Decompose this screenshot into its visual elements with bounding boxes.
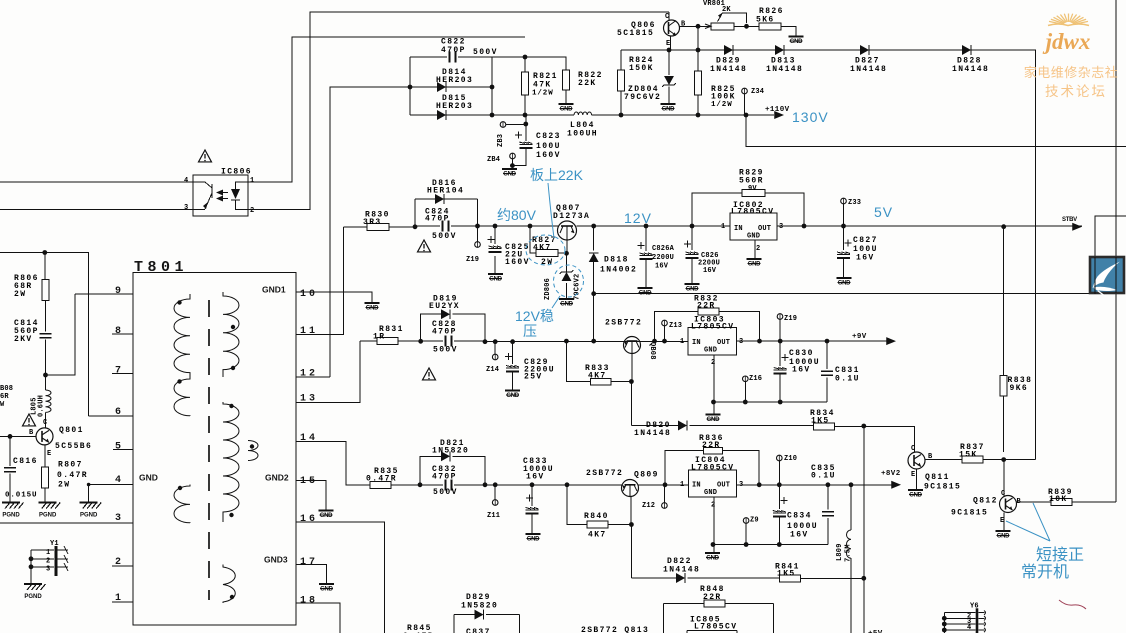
resistor R848 22R bypass	[664, 604, 774, 633]
T801 pin 13	[296, 341, 360, 402]
potentiometer VR801 2K	[705, 13, 747, 30]
terminal Z11	[494, 485, 496, 500]
svg-text:7: 7	[115, 366, 124, 377]
wire snubber top branch	[410, 56, 492, 58]
junction Q808 base node	[629, 379, 634, 384]
svg-text:0.47R: 0.47R	[57, 471, 88, 480]
ground IC803	[705, 415, 720, 424]
diode D827 1N4148	[860, 45, 869, 55]
capacitor C829 2200U 25V	[512, 342, 514, 391]
svg-text:C830: C830	[789, 349, 814, 358]
chassis ground PGND3	[80, 503, 102, 519]
svg-text:HER104: HER104	[427, 187, 464, 196]
wire R826 to ground	[781, 26, 796, 36]
svg-text:L7805CV: L7805CV	[694, 623, 737, 632]
svg-text:1: 1	[46, 549, 50, 557]
svg-text:OUT: OUT	[717, 339, 730, 347]
svg-text:2W: 2W	[58, 481, 70, 490]
T801 pin 11	[296, 227, 344, 335]
svg-text:12V: 12V	[624, 210, 652, 226]
svg-text:L7805CV: L7805CV	[731, 208, 774, 217]
ground below C833	[526, 534, 541, 543]
svg-text:Z9: Z9	[750, 517, 759, 525]
svg-text:Q801: Q801	[59, 426, 84, 435]
inductor L804 100UH	[574, 112, 592, 115]
diode D820 1N4148 line	[631, 425, 813, 427]
svg-text:GND: GND	[489, 277, 502, 283]
connector Y1	[31, 540, 68, 576]
svg-text:500V: 500V	[473, 48, 498, 57]
svg-text:B08: B08	[0, 385, 13, 393]
svg-text:Z16: Z16	[749, 375, 762, 383]
svg-text:15: 15	[300, 476, 318, 487]
terminal Z10	[777, 455, 783, 461]
capacitor C832 470P on rail	[420, 484, 485, 486]
svg-text:5V: 5V	[874, 204, 893, 220]
T801 pin 12	[296, 376, 330, 378]
T801 winding pins 7-6	[174, 374, 190, 416]
svg-text:2: 2	[46, 558, 50, 566]
junction R832 left	[652, 339, 657, 344]
wire Y1 to ground	[30, 550, 32, 584]
wire optocoupler pin 4 input	[0, 181, 193, 183]
junction base-C816	[8, 434, 13, 439]
T801 pin 7	[112, 373, 133, 375]
T801 pin 18	[296, 603, 340, 633]
svg-text:500V: 500V	[433, 346, 458, 355]
T801 pin 5	[113, 449, 133, 451]
svg-text:3: 3	[46, 566, 50, 574]
junction L809 top	[849, 482, 854, 487]
junction C829 top	[510, 339, 515, 344]
svg-text:7.5M: 7.5M	[845, 544, 853, 562]
wire +110V rail	[592, 114, 774, 116]
svg-text:2W: 2W	[541, 258, 553, 267]
svg-text:500V: 500V	[433, 488, 458, 497]
svg-text:160V: 160V	[536, 151, 561, 160]
svg-text:E: E	[47, 450, 51, 458]
svg-text:2W: 2W	[14, 290, 26, 299]
bird icon	[1090, 257, 1124, 297]
svg-text:Z14: Z14	[486, 366, 499, 374]
svg-text:16V: 16V	[526, 473, 545, 482]
svg-text:0.47R: 0.47R	[366, 475, 397, 484]
svg-text:Z33: Z33	[848, 199, 861, 207]
svg-text:GND: GND	[704, 489, 717, 497]
capacitor C833 1000U 16V	[531, 485, 533, 534]
junction D819 right	[483, 339, 488, 344]
zener ZD806	[566, 253, 568, 299]
svg-text:2SB772: 2SB772	[605, 319, 642, 328]
svg-text:16V: 16V	[703, 267, 717, 275]
terminal Z9	[743, 518, 749, 524]
resistor R834 1K5	[814, 423, 835, 430]
svg-text:15K: 15K	[959, 451, 978, 460]
ground below ZD806	[559, 299, 574, 308]
diode D813 1N4148	[775, 45, 784, 55]
svg-text:家电维修杂志社: 家电维修杂志社	[1024, 65, 1119, 80]
diode D819 EU2YX branch	[421, 314, 485, 342]
T801 pin 6	[88, 415, 133, 417]
svg-text:E: E	[666, 40, 670, 48]
svg-text:1N4148: 1N4148	[766, 65, 803, 74]
svg-text:C834: C834	[787, 512, 812, 521]
wire optocoupler pin2 to top rail	[248, 12, 669, 210]
capacitor C827 100U 16V	[843, 226, 845, 278]
svg-text:1: 1	[680, 481, 684, 489]
transistor Q801 5C5586	[36, 428, 53, 445]
arrow +9V	[886, 337, 896, 345]
svg-text:500V: 500V	[432, 232, 457, 241]
junction Z11	[493, 482, 498, 487]
svg-text:GND3: GND3	[264, 555, 288, 565]
arrow STBV	[1072, 223, 1082, 231]
transistor Q812 9C1815	[1000, 496, 1017, 513]
ground below C823	[502, 169, 517, 178]
svg-text:16: 16	[300, 514, 318, 525]
svg-text:9: 9	[115, 286, 124, 297]
ground GND1 symbol	[365, 303, 380, 312]
transistor Q811 9C1815	[908, 452, 925, 469]
wire R824 branch	[620, 50, 622, 115]
diode D829 1N5820 branch	[454, 615, 520, 633]
junction C827 top	[841, 224, 846, 229]
svg-text:2SB772 Q813: 2SB772 Q813	[581, 626, 649, 633]
wire Q811 base to R837	[925, 459, 962, 461]
svg-text:GND: GND	[909, 493, 922, 499]
wire Q812 base to R839	[1016, 501, 1051, 503]
svg-text:GND: GND	[686, 287, 699, 293]
svg-text:100UH: 100UH	[567, 130, 598, 139]
svg-text:GND: GND	[560, 107, 573, 113]
svg-text:16V: 16V	[856, 254, 875, 263]
svg-text:E: E	[911, 471, 915, 479]
svg-text:jdwx: jdwx	[1042, 29, 1091, 54]
svg-text:2KV: 2KV	[14, 335, 33, 344]
svg-text:9C1815: 9C1815	[924, 483, 961, 492]
svg-text:470P: 470P	[432, 473, 457, 482]
svg-text:约80V: 约80V	[497, 207, 537, 223]
wire Q808 base stub	[631, 354, 633, 382]
inductor L805 0.6UH	[46, 390, 52, 412]
svg-text:Q811: Q811	[925, 473, 950, 482]
ground pin15	[319, 511, 334, 520]
svg-text:1: 1	[721, 223, 725, 231]
svg-text:4K7: 4K7	[588, 531, 607, 540]
svg-text:9C1815: 9C1815	[951, 509, 988, 518]
svg-text:17: 17	[300, 557, 318, 568]
resistor R806 68R 2W	[44, 253, 46, 280]
svg-text:47K: 47K	[533, 81, 552, 90]
ground below R822	[559, 104, 574, 113]
resistor R839 10K	[1051, 499, 1072, 506]
resistor R833 4K7	[566, 341, 631, 381]
connector Y6	[944, 603, 985, 633]
svg-text:2SB772: 2SB772	[586, 469, 623, 478]
wire IC803 out rail +9V	[737, 340, 890, 342]
wire L805 to Q801 collector	[45, 412, 47, 428]
wire 8V rail	[485, 484, 622, 486]
ground Q812	[996, 531, 1011, 540]
svg-text:5C1815: 5C1815	[617, 29, 654, 38]
svg-text:QB08: QB08	[648, 342, 656, 360]
resistor R807 0.47R 2W	[42, 467, 49, 488]
svg-text:ZB4: ZB4	[487, 156, 500, 164]
svg-text:11: 11	[300, 326, 318, 337]
resistor R836 22R bypass	[665, 451, 759, 485]
junction ZB3 node	[523, 122, 528, 127]
wire 130V feed to right edge	[746, 115, 1126, 147]
regulator IC802 L7805CV	[730, 201, 777, 241]
svg-text:GND: GND	[503, 172, 516, 178]
ground below C826	[685, 284, 700, 293]
svg-text:C826A: C826A	[652, 245, 675, 253]
svg-text:79C6V2: 79C6V2	[624, 93, 661, 102]
junction D818 bottom	[591, 339, 596, 344]
svg-text:压: 压	[523, 323, 537, 339]
junction R841 right	[861, 576, 866, 581]
svg-text:ZD806: ZD806	[544, 278, 552, 300]
svg-text:Z10: Z10	[784, 455, 797, 463]
T801 pin 8	[112, 333, 133, 335]
wire primary top feed	[0, 253, 88, 417]
junction gnd node dots	[711, 400, 716, 405]
junction D821 right	[483, 482, 488, 487]
svg-text:C: C	[43, 419, 47, 427]
svg-text:C837: C837	[466, 628, 491, 633]
svg-text:1N4148: 1N4148	[663, 566, 700, 575]
chassis ground PGND2	[39, 503, 61, 519]
junction R806 top	[42, 250, 47, 255]
svg-text:10K: 10K	[1049, 495, 1068, 504]
svg-text:L7805CV: L7805CV	[691, 464, 734, 473]
junction gnd node dots 2	[711, 542, 716, 547]
svg-text:2: 2	[250, 207, 254, 215]
svg-text:ZB3: ZB3	[497, 134, 505, 147]
svg-text:1K5: 1K5	[811, 417, 830, 426]
wire R834 to Q811 collector	[835, 426, 915, 452]
ground below C827	[837, 278, 852, 287]
svg-text:GND: GND	[707, 417, 720, 423]
T801 pin 1	[112, 601, 133, 603]
resistor R825 100K 1/2W	[697, 26, 699, 115]
svg-text:+9V: +9V	[852, 333, 867, 341]
arrow +8V2	[891, 481, 901, 489]
svg-text:3: 3	[739, 338, 743, 346]
capacitor C826A 2200U 16V	[645, 226, 647, 288]
svg-text:470P: 470P	[432, 328, 457, 337]
wire R835 to node	[391, 484, 420, 486]
svg-text:HER203: HER203	[436, 102, 473, 111]
wire R830 rail	[344, 226, 416, 228]
svg-text:3R3: 3R3	[363, 218, 382, 227]
svg-text:0.1U: 0.1U	[835, 375, 860, 384]
wire Q801 emitter to R807	[44, 445, 46, 502]
capacitor C831 0.1U	[826, 341, 828, 402]
T801 primary winding pins 9-7	[174, 294, 190, 374]
resistor R840 4K7	[567, 485, 631, 525]
T801 winding pins 17-18	[223, 565, 235, 604]
capacitor C834 1000U 16V	[778, 485, 780, 545]
op-to-coupler IC806	[193, 168, 252, 217]
ground below C826A	[638, 288, 653, 297]
red marker curve	[1059, 600, 1086, 609]
svg-text:14: 14	[300, 433, 318, 444]
svg-text:1: 1	[115, 593, 124, 604]
wire crossing icon left	[1094, 257, 1096, 294]
junction R827 top	[528, 224, 533, 229]
junction Z34 rail	[744, 113, 749, 118]
svg-text:GND: GND	[838, 281, 851, 287]
svg-text:GND: GND	[527, 537, 540, 543]
junction C831 top	[825, 339, 830, 344]
svg-text:1N5820: 1N5820	[461, 602, 498, 611]
svg-text:GND: GND	[997, 534, 1010, 540]
terminal Z34	[742, 88, 748, 94]
diode D829 1N4148	[724, 45, 733, 55]
svg-text:D818: D818	[604, 256, 629, 265]
svg-text:1K5: 1K5	[777, 570, 796, 579]
svg-text:5K6: 5K6	[756, 16, 775, 25]
svg-text:5: 5	[115, 442, 124, 453]
svg-text:EU2YX: EU2YX	[429, 302, 460, 311]
capacitor C816 0.015U	[9, 436, 11, 502]
wire optocoupler pin 3 input	[0, 209, 193, 211]
junction C835 top	[826, 482, 831, 487]
wire crossing icon right	[1115, 257, 1117, 293]
transistor Q808 2SB772	[624, 337, 641, 354]
svg-text:GND: GND	[662, 107, 675, 113]
svg-text:4K7: 4K7	[533, 244, 552, 253]
resistor R824 150K	[618, 70, 625, 91]
wire right-edge vertical bus	[1115, 0, 1117, 502]
svg-text:2: 2	[711, 502, 715, 510]
terminal Z33	[841, 198, 847, 204]
junction C826A top	[644, 224, 649, 229]
svg-text:GND: GND	[706, 556, 719, 562]
svg-text:Z11: Z11	[487, 512, 500, 520]
jdwx logo	[1024, 14, 1119, 100]
junction Z14	[493, 339, 498, 344]
svg-text:6: 6	[115, 407, 124, 418]
wire IC802 out rail	[777, 225, 1082, 227]
junction C825 top	[493, 224, 498, 229]
terminal ZB3	[500, 122, 506, 128]
junction box right	[475, 224, 480, 229]
regulator IC804 L7805CV	[689, 456, 737, 497]
junction D818 top	[591, 224, 596, 229]
svg-text:PGND: PGND	[2, 513, 20, 519]
diode D818 1N4002 vertical	[593, 226, 595, 341]
T801 secondary winding pins 13-16	[223, 402, 239, 522]
svg-text:PGND: PGND	[39, 513, 57, 519]
transformer T801 body	[133, 259, 296, 625]
svg-text:T801: T801	[134, 259, 188, 276]
blue pointer to zener circle	[552, 296, 560, 308]
svg-text:0.6UH: 0.6UH	[38, 395, 46, 417]
warning triangle lower	[423, 368, 436, 380]
svg-text:22R: 22R	[702, 441, 721, 450]
resistor R826 5K6	[759, 23, 781, 30]
capacitor C828 470P on rail	[421, 340, 485, 342]
svg-text:Z13: Z13	[669, 322, 682, 330]
svg-text:常开机: 常开机	[1021, 563, 1069, 581]
wire 12V rail after Q807	[577, 225, 731, 227]
wire R841 to +5V node	[800, 577, 864, 579]
svg-text:GND: GND	[366, 306, 379, 312]
svg-text:1N4002: 1N4002	[600, 266, 637, 275]
svg-text:IN: IN	[692, 482, 701, 490]
svg-text:R807: R807	[58, 461, 83, 470]
ground pin17	[319, 584, 334, 593]
svg-text:C823: C823	[536, 132, 561, 141]
svg-text:1N4148: 1N4148	[710, 65, 747, 74]
diode D815 HER203	[437, 110, 446, 120]
svg-text:1: 1	[250, 177, 254, 185]
wire IC803 gnd node	[714, 355, 828, 414]
svg-text:1N4148: 1N4148	[850, 65, 887, 74]
transistor Q809 2SB772	[622, 480, 639, 497]
svg-text:GND: GND	[790, 39, 803, 45]
svg-text:3: 3	[115, 513, 124, 524]
terminal Z13	[664, 326, 666, 341]
junction ZB4-gnd	[510, 163, 515, 168]
svg-text:8: 8	[115, 326, 124, 337]
svg-text:150K: 150K	[629, 64, 654, 73]
capacitor C825 22U 160V	[494, 226, 496, 274]
svg-text:C816: C816	[13, 457, 38, 466]
chassis ground PGND1	[2, 503, 24, 519]
svg-text:板上22K: 板上22K	[530, 167, 584, 183]
resistor R837 15K	[962, 456, 983, 463]
wire Q812 emitter	[1003, 513, 1005, 532]
svg-text:16V: 16V	[792, 366, 811, 375]
blue dashed circle around ZD806	[554, 265, 584, 297]
resistor R835 0.47R	[370, 481, 391, 488]
blue dashed ellipse around R827	[526, 235, 565, 265]
wire Q806 base to VR801	[680, 25, 712, 27]
svg-text:470P: 470P	[441, 46, 466, 55]
wire base node to D822 line	[630, 525, 632, 579]
junction R825 top node	[696, 48, 701, 53]
resistor R827 4K7 2W	[530, 226, 567, 253]
svg-text:R840: R840	[584, 512, 609, 521]
warning triangle mid	[418, 240, 431, 252]
wire from D814 anode to T801 pin12	[330, 87, 410, 377]
resistor R831 1R	[360, 341, 421, 402]
svg-text:+8V2: +8V2	[881, 470, 901, 478]
svg-text:9V: 9V	[748, 185, 757, 193]
svg-text:79C6V2: 79C6V2	[574, 274, 582, 300]
capacitor C814 560P 2KV	[45, 301, 47, 376]
T801 pin 9	[75, 293, 133, 295]
svg-text:D1273A: D1273A	[553, 212, 590, 221]
junction Q809 base node	[629, 522, 634, 527]
svg-text:13: 13	[300, 394, 318, 405]
junction C826 top	[690, 224, 695, 229]
capacitor C824 470P on rail	[415, 225, 478, 227]
svg-text:C827: C827	[853, 236, 878, 245]
svg-text:22R: 22R	[697, 302, 716, 311]
wire +rect node down to C823	[512, 115, 525, 166]
wire base node down to D820	[630, 382, 632, 426]
terminal Z15 above rail	[777, 314, 783, 320]
svg-text:2: 2	[756, 245, 760, 253]
wire Q809 base stub	[630, 497, 632, 525]
svg-text:STBV: STBV	[1062, 217, 1077, 223]
svg-text:GND1: GND1	[262, 285, 286, 295]
transistor Q806 5C1815	[664, 20, 680, 36]
